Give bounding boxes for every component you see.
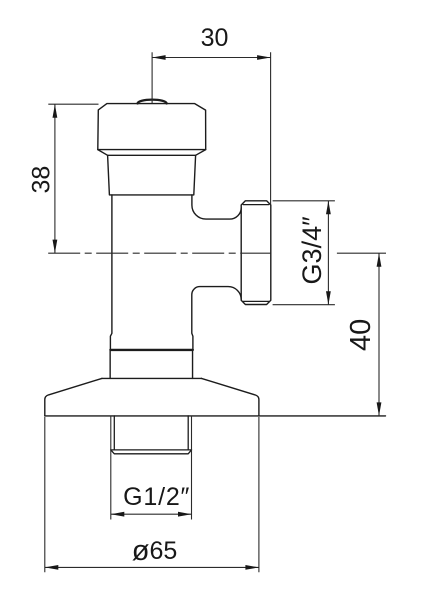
svg-text:38: 38 <box>27 166 55 194</box>
svg-text:30: 30 <box>201 24 229 52</box>
svg-text:ø65: ø65 <box>132 535 178 567</box>
svg-text:G1/2″: G1/2″ <box>123 483 190 511</box>
svg-text:40: 40 <box>345 319 377 351</box>
svg-text:G3/4″: G3/4″ <box>297 216 327 285</box>
